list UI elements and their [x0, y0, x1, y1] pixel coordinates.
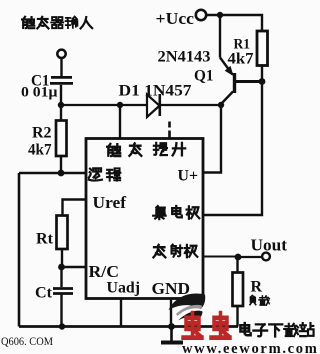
wire: junction down to collector pin [203, 82, 262, 216]
ground symbol [161, 327, 183, 343]
terminal Uout [262, 253, 270, 261]
svg-text:+Ucc: +Ucc [156, 9, 195, 28]
svg-text:Uout: Uout [251, 236, 288, 255]
wire: left rail [18, 173, 21, 327]
wire: Ucc junction down to Q1 emitter [219, 15, 221, 58]
svg-text:R: R [251, 279, 263, 296]
wire: logic pin line [19, 172, 86, 174]
node: R/C junction [58, 264, 65, 271]
resistor R load [233, 257, 244, 327]
wire: Uadj stub to rail [120, 299, 122, 327]
node: R2 bottom junction [58, 170, 65, 177]
svg-text:R2: R2 [32, 125, 52, 142]
node: Ucc junction [217, 12, 223, 18]
resistor R1 [257, 31, 268, 82]
label 触发器输入 (trigger input) [22, 17, 92, 29]
wire: C1 to node [60, 85, 62, 105]
svg-text:Uadj: Uadj [107, 280, 141, 297]
node: base/R1 junction [259, 78, 266, 85]
wire: R/C pin line [62, 266, 87, 268]
wire: terminal to C1 [60, 59, 62, 76]
wire: horizontal trigger line y=105 [61, 104, 221, 106]
svg-text:www.eeworm.com: www.eeworm.com [182, 341, 317, 354]
watermark 电子下载站 [240, 323, 250, 335]
node: Ct bottom junction [59, 323, 65, 329]
wire: Uref pin to Rt [63, 200, 87, 216]
svg-text:U+: U+ [178, 168, 199, 185]
svg-text:4k7: 4k7 [228, 51, 254, 68]
node: C1/R2/diode junction [58, 102, 64, 108]
svg-text:Q606. COM: Q606. COM [1, 334, 53, 348]
resistor Rt [57, 216, 68, 250]
wire: 提升 stub (dashed) [168, 122, 171, 139]
transistor Q1 (PNP 2N4143) [220, 58, 262, 104]
watermark swoosh logo [169, 293, 206, 320]
svg-text:R/C: R/C [89, 262, 120, 281]
svg-text:Uref: Uref [93, 193, 127, 212]
wire: +Ucc rail [207, 15, 263, 31]
pin label 触发 [107, 144, 120, 156]
node: diode line / Q1 collector junction [218, 102, 224, 108]
wire: GND stub to rail [170, 299, 172, 327]
pin label 集电极 [153, 206, 165, 219]
pin label 逻辑 [89, 168, 102, 180]
wire: emitter pin line [203, 256, 238, 258]
terminal: trigger input [57, 50, 65, 58]
svg-text:2N4143: 2N4143 [158, 49, 211, 66]
capacitor C1 [50, 77, 73, 83]
svg-text:4k7: 4k7 [28, 142, 52, 159]
watermark 虫虫 [183, 313, 230, 337]
svg-text:0 01μ: 0 01μ [21, 85, 58, 101]
wire: to Uout terminal [238, 256, 262, 258]
label 负载 [250, 295, 256, 304]
pin label 发射极 [153, 245, 165, 257]
wire: junction down to U+ pin [203, 105, 221, 173]
svg-text:Ct: Ct [35, 285, 53, 302]
resistor R2 [56, 105, 67, 173]
svg-text:Q1: Q1 [194, 68, 214, 85]
terminal +Ucc [196, 10, 206, 20]
svg-text:D1 1N457: D1 1N457 [119, 83, 192, 100]
svg-text:Rt: Rt [36, 231, 54, 248]
node: trigger pin junction [117, 102, 123, 108]
diode D1 [147, 94, 160, 117]
wire: Rt to R/C node [61, 249, 63, 267]
wire: bottom rail [19, 325, 238, 328]
svg-text:GND: GND [152, 279, 191, 298]
node: GND rail junction [168, 323, 175, 330]
pin label 提升 [154, 143, 167, 155]
wire: stub down to 触发 pin [119, 105, 121, 138]
IC box U1 [86, 139, 203, 299]
node: emitter/load junction [235, 254, 242, 261]
capacitor Ct [53, 267, 73, 327]
